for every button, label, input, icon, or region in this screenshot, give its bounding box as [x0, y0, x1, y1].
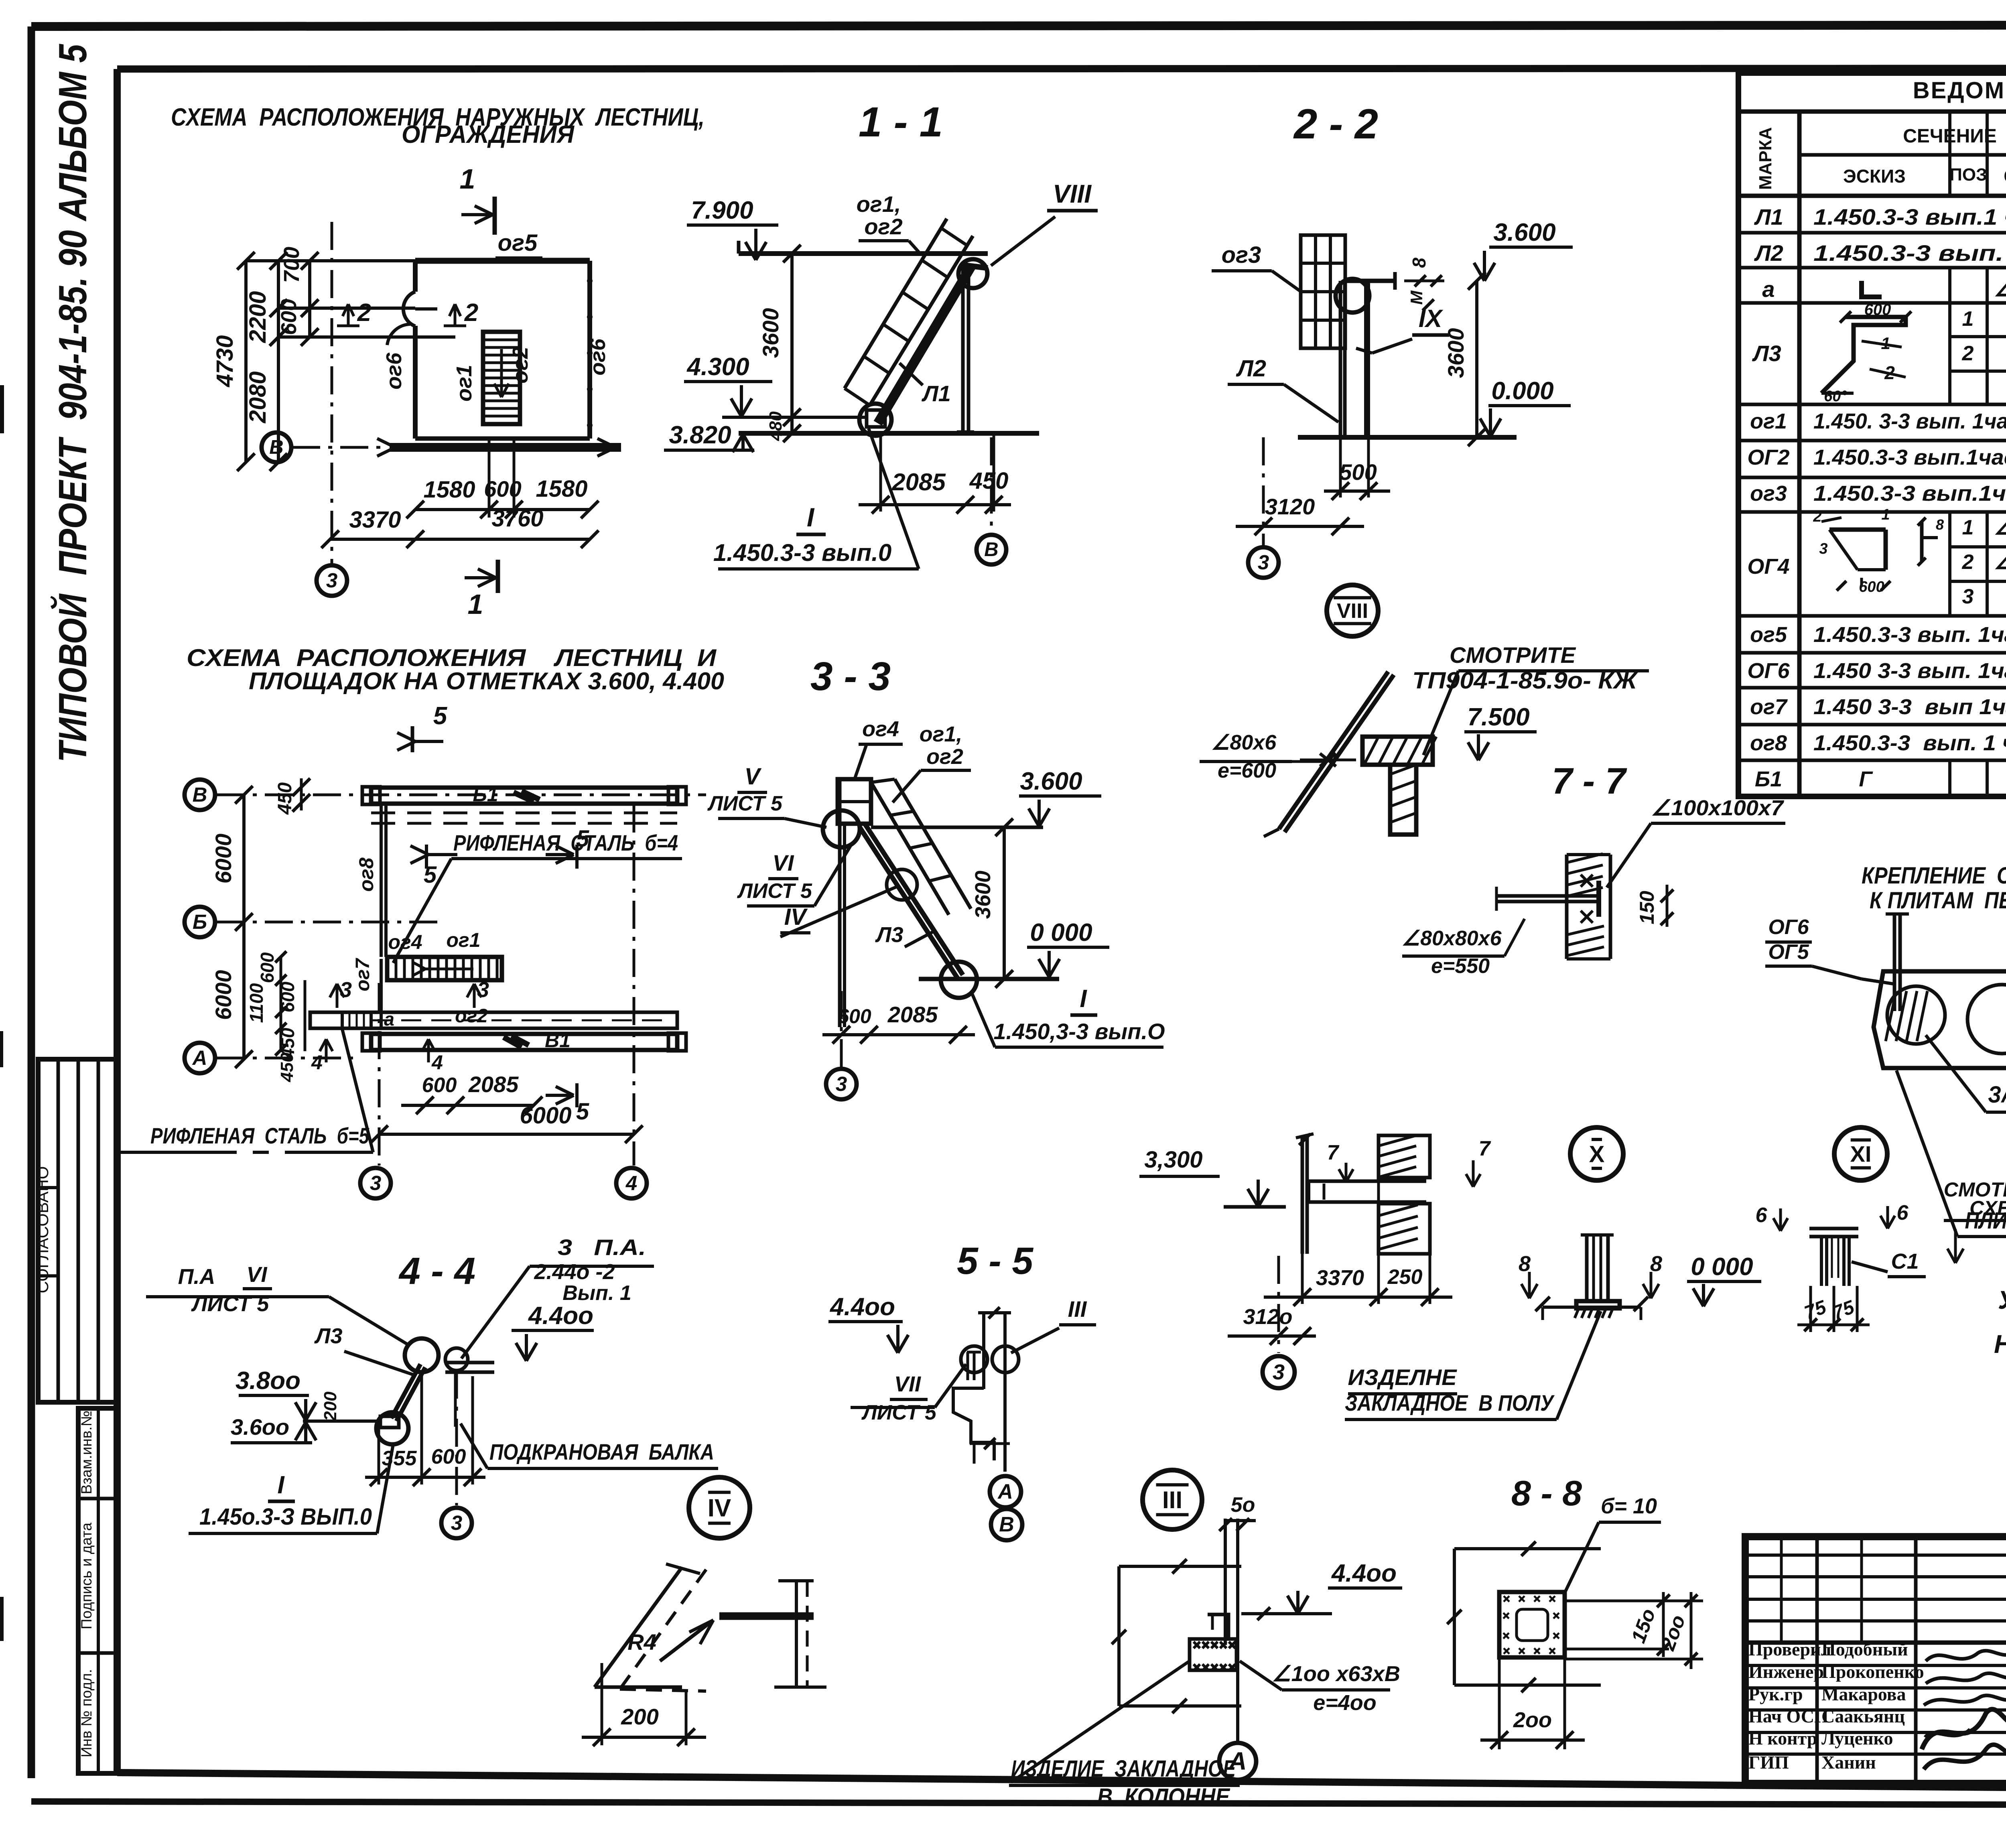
section 3-3 node IV ref: [780, 869, 917, 937]
svg-text:4: 4: [625, 1172, 637, 1194]
column base elevation 0.000: [1687, 1253, 1761, 1306]
detail 7-7 angle bar: [1496, 881, 1601, 917]
svg-text:6: 6: [1897, 1201, 1909, 1225]
section 3-3 label: [810, 654, 891, 699]
vedomost row OG8: [1750, 730, 2006, 755]
section 2-2 detail circle: [1336, 279, 1369, 313]
c1 label: [1852, 1249, 1926, 1277]
svg-text:∠80x6: ∠80x6: [1211, 731, 1277, 754]
svg-text:ог6: ог6: [586, 338, 610, 376]
section 5-5 bottom dim: [970, 1438, 1010, 1464]
vedomost row OG4 sketch: [1747, 506, 1944, 595]
detail IX inclined stringer: [1264, 672, 1394, 837]
svg-text:I: I: [1080, 985, 1087, 1013]
svg-text:ПОЗ: ПОЗ: [1949, 165, 1987, 185]
section 2-2 small dims 8: [1404, 258, 1444, 311]
svg-text:СЕЧЕНИЕ: СЕЧЕНИЕ: [1903, 126, 1997, 147]
svg-text:ог8: ог8: [355, 857, 378, 892]
svg-text:ог1: ог1: [1750, 409, 1787, 433]
section 4-4 L3 label: [314, 1324, 415, 1375]
wall detail left posts: [1296, 1134, 1314, 1254]
section 3-3 og4 label: [855, 717, 903, 779]
wall detail dims 3370 250: [1264, 1178, 1452, 1306]
c1 cut 6 markers: [1756, 1201, 1909, 1231]
section 3-3 node V ref: [707, 764, 860, 847]
section 5-5 VII ref: [851, 1364, 966, 1424]
svg-text:Подпись и дата: Подпись и дата: [78, 1523, 95, 1630]
svg-text:Б: Б: [193, 910, 207, 933]
detail 7-7 label: [1552, 761, 1627, 802]
svg-text:VIII: VIII: [1337, 599, 1368, 623]
svg-text:3.820: 3.820: [669, 421, 731, 449]
vedomost row OG5: [1750, 621, 2006, 647]
svg-text:ог2: ог2: [455, 1005, 488, 1027]
svg-text:1.450.3-3 вып. 1 часть2, ОГПМ: 1.450.3-3 вып. 1 часть2, ОГПМХЭб-12.46: [1813, 731, 2006, 755]
svg-text:Л2: Л2: [1754, 240, 1783, 266]
detail 8-8 b10 note: [1565, 1494, 1661, 1593]
svg-text:ог5: ог5: [1750, 623, 1787, 647]
svg-text:200: 200: [321, 1391, 340, 1422]
svg-text:6000: 6000: [520, 1103, 571, 1129]
section 4-4 platform lines: [445, 1363, 494, 1427]
svg-text:ОГ4: ОГ4: [1747, 554, 1789, 579]
svg-text:600: 600: [257, 952, 278, 983]
svg-text:ИЗДЕЛИЕ ЗАКЛАДНОЕ: ИЗДЕЛИЕ ЗАКЛАДНОЕ: [1011, 1756, 1236, 1782]
svg-text:2: 2: [1962, 550, 1974, 574]
section 2-2 dim 500: [1324, 437, 1390, 500]
section 1-1 bottom dims 2085 450: [859, 433, 1011, 514]
svg-text:1: 1: [460, 163, 475, 195]
svg-text:1.450.3-3 вып. 1часть2,ОГПМХЭб: 1.450.3-3 вып. 1часть2,ОГПМХЭб-12.18: [1813, 623, 2006, 647]
plan2 small dims 600 1100 600 450: [246, 951, 305, 1059]
plan2 lower platform strip: [310, 1005, 677, 1030]
svg-text:ЗАКЛАДНОЕ В ПОЛУ: ЗАКЛАДНОЕ В ПОЛУ: [1345, 1390, 1555, 1415]
detail IX anchor mark: [1300, 753, 1356, 766]
section 2-2 ground line: [1298, 435, 1517, 440]
svg-text:ог2: ог2: [508, 347, 532, 384]
svg-text:ЛИСТ 5: ЛИСТ 5: [737, 879, 812, 903]
plan2 dim 450 bottom: [277, 1052, 297, 1082]
svg-text:∠100x100x7: ∠100x100x7: [1651, 796, 1785, 820]
svg-text:Рук.гр: Рук.гр: [1748, 1684, 1803, 1704]
detail III embed plate: [1190, 1639, 1236, 1671]
svg-text:ЗАБИТЬ БЕТОНОМ: ЗАБИТЬ БЕТОНОМ: [1988, 1082, 2006, 1108]
section 1-1 detail circle at top: [958, 259, 988, 288]
section 1-1 label L1: [899, 363, 951, 406]
svg-text:1580: 1580: [536, 476, 587, 502]
svg-text:X: X: [1589, 1141, 1605, 1167]
izdelie v polu label: [1345, 1311, 1601, 1420]
svg-text:ог2: ог2: [926, 745, 963, 769]
svg-text:IX: IX: [1419, 305, 1444, 333]
svg-text:ог7: ог7: [1750, 695, 1788, 719]
detail 8-8 dims 150 200 right: [1565, 1592, 1703, 1669]
svg-text:2200: 2200: [245, 291, 271, 343]
section 2-2 dim 3120: [1236, 494, 1364, 535]
svg-text:МАРКА: МАРКА: [1756, 127, 1775, 190]
vedomost row OG3: [1750, 480, 2006, 506]
plan2 axis B: [185, 780, 706, 810]
svg-text:Подобный: Подобный: [1821, 1639, 1908, 1659]
section 1-1 label: [859, 99, 943, 146]
section 1-1 node VIII label: [991, 179, 1098, 266]
svg-text:450: 450: [277, 1052, 297, 1082]
svg-text:6000: 6000: [211, 834, 236, 884]
section 4-4 podkranovaya balka label: [461, 1424, 718, 1468]
svg-text:600: 600: [422, 1074, 457, 1097]
svg-text:1.450.3-3 вып.1 часть1, МЛХФ 6: 1.450.3-3 вып.1 часть1, МЛХФ 60-36.6: [1813, 204, 2006, 229]
section 1-1 elevation 7.900: [687, 197, 778, 260]
section 5-5 step profile: [953, 1388, 994, 1460]
svg-text:5: 5: [433, 702, 448, 730]
section 1-1 column post: [957, 266, 974, 433]
svg-text:3600: 3600: [1443, 328, 1468, 378]
section 5-5 node III ref: [1011, 1296, 1096, 1353]
section 2-2 elevation 0.000: [1480, 377, 1571, 437]
vedomost row a: [1762, 272, 2006, 307]
section 3-3 top slab block: [838, 779, 871, 824]
section 5-5 detail circles: [961, 1346, 1019, 1380]
section 5-5 elevation 4.400: [828, 1293, 908, 1353]
svg-text:4: 4: [311, 1051, 323, 1074]
r4 right member: [774, 1581, 826, 1687]
section 2-2 L2 label: [1228, 355, 1338, 422]
svg-text:1.450.3-3 вып.0: 1.450.3-3 вып.0: [713, 539, 891, 566]
node circle III: [1143, 1470, 1202, 1529]
svg-text:355: 355: [382, 1447, 417, 1470]
svg-text:Саакьянц: Саакьянц: [1821, 1706, 1905, 1726]
detail III dim 50: [1219, 1493, 1256, 1531]
svg-text:8 - 8: 8 - 8: [1511, 1473, 1582, 1513]
svg-text:Л1: Л1: [921, 381, 951, 406]
svg-text:5 - 5: 5 - 5: [957, 1240, 1033, 1282]
detail 8-8 label: [1511, 1473, 1582, 1513]
plan1 bottom dimension row 3370 3760: [321, 506, 599, 548]
svg-text:I: I: [277, 1471, 285, 1499]
svg-text:2: 2: [464, 299, 478, 327]
section 4-4 incline: [376, 1364, 425, 1444]
svg-text:Вып. 1: Вып. 1: [562, 1281, 631, 1305]
svg-text:СОГЛАСОВАНО: СОГЛАСОВАНО: [33, 1166, 52, 1294]
wall detail 7 markers: [1327, 1137, 1491, 1187]
svg-text:7.900: 7.900: [691, 197, 753, 224]
svg-text:ОГ6: ОГ6: [1768, 916, 1809, 939]
column base cut 8 markers: [1519, 1252, 1662, 1311]
vedomost table grid: [1738, 73, 2006, 796]
svg-text:3,300: 3,300: [1144, 1147, 1202, 1173]
svg-text:2: 2: [357, 299, 371, 327]
r4 dim 200: [582, 1663, 706, 1746]
svg-text:ог3: ог3: [1750, 481, 1787, 506]
svg-text:1.45о.3-З ВЫП.0: 1.45о.3-З ВЫП.0: [199, 1504, 372, 1530]
svg-text:XI: XI: [1850, 1141, 1872, 1167]
section 3-3 bottom dims 600 2085: [822, 1002, 975, 1044]
svg-text:60°: 60°: [1824, 388, 1847, 405]
section 5-5 posts: [978, 1307, 1011, 1472]
svg-text:ог6: ог6: [382, 352, 406, 390]
smotrite ref text: [1412, 642, 1649, 755]
svg-text:Б1: Б1: [1755, 767, 1782, 791]
section 3-3 ground line: [919, 977, 1059, 981]
svg-text:Взам.инв.№: Взам.инв.№: [78, 1411, 95, 1495]
svg-text:3760: 3760: [491, 506, 543, 532]
svg-text:е=4оо: е=4оо: [1313, 1691, 1377, 1715]
section 2-2 node IX ref: [1356, 305, 1449, 353]
plan2 bottom dims 600 2085: [401, 1072, 542, 1114]
section 1-1 axis B circle: [977, 437, 1006, 565]
plan2 axis circles 3 and 4: [360, 804, 647, 1198]
plan2 cut marker 5 top: [397, 702, 448, 752]
slab void hatch: [1886, 991, 1927, 1041]
svg-text:Л3: Л3: [1752, 341, 1781, 366]
svg-text:СОСТАВ: СОСТАВ: [2004, 166, 2006, 187]
vedomost row L1: [1754, 204, 2006, 229]
detail 7-7 bolt marks: [1581, 875, 1593, 923]
soglasovano stamp box: [33, 1059, 117, 1402]
svg-text:ог1,: ог1,: [857, 191, 901, 217]
column base column: [1581, 1235, 1614, 1301]
svg-text:5: 5: [576, 1099, 589, 1125]
detail III channel piece: [1208, 1614, 1228, 1639]
section 2-2 label: [1293, 101, 1378, 148]
main title line 2: [402, 121, 575, 148]
section 3-3 ref I: [971, 985, 1165, 1047]
section 2-2 posts: [1340, 281, 1368, 437]
detail 7-7 wall hatched: [1567, 855, 1610, 959]
svg-text:2 - 2: 2 - 2: [1293, 101, 1378, 148]
svg-text:III: III: [1162, 1487, 1182, 1513]
section 1-1 foot and detail circle: [859, 404, 891, 436]
svg-text:2оо: 2оо: [1513, 1708, 1552, 1732]
svg-text:1580: 1580: [423, 477, 475, 503]
svg-text:а: а: [1762, 276, 1775, 302]
svg-text:8: 8: [1409, 258, 1429, 268]
svg-text:Проверил: Проверил: [1748, 1639, 1831, 1659]
svg-text:а: а: [384, 1009, 394, 1030]
svg-text:Макарова: Макарова: [1821, 1684, 1906, 1704]
vedomost row L2: [1754, 240, 2006, 266]
svg-text:IV: IV: [708, 1495, 731, 1522]
svg-text:VI: VI: [246, 1263, 267, 1287]
svg-text:1.450,3-3 вып.О: 1.450,3-3 вып.О: [993, 1019, 1165, 1044]
svg-text:∠80x80x6: ∠80x80x6: [1994, 278, 2006, 301]
plan1 door arc leader: [387, 324, 410, 345]
plan1 bottom dimension row 1580 600 1580: [406, 439, 599, 518]
svg-text:3: 3: [340, 978, 352, 1002]
r4 detail inclined channel: [595, 1564, 706, 1691]
wall detail axis 3: [1263, 1256, 1295, 1388]
svg-text:К ПЛИТАМ ПЕРЕКРЫТИЯ: К ПЛИТАМ ПЕРЕКРЫТИЯ: [1870, 887, 2006, 914]
svg-text:3370: 3370: [1316, 1266, 1364, 1290]
detail 8-8 dim 200 bottom: [1480, 1657, 1585, 1749]
svg-text:1.450.3-3 вып.1часть 2, ОГС-2: 1.450.3-3 вып.1часть 2, ОГС-24.4: [1813, 481, 2006, 506]
detail III axis A circle: [1219, 1743, 1256, 1780]
svg-text:600: 600: [1859, 579, 1884, 595]
zabit betonom label: [1926, 1035, 2006, 1112]
svg-text:700: 700: [280, 247, 304, 283]
svg-text:А: А: [1228, 1747, 1247, 1775]
detail 7-7 angle note: [1607, 796, 1785, 887]
r4 label: [627, 1629, 656, 1655]
vertical album title text: [50, 44, 95, 762]
wall detail dim 3120: [1228, 1305, 1316, 1345]
svg-text:Нач ОСП: Нач ОСП: [1748, 1706, 1829, 1726]
column base plate: [1575, 1301, 1620, 1318]
section 3-3 og1 og2 labels: [893, 722, 971, 802]
vedomost row OG2: [1747, 444, 2006, 469]
detail III leader to izdelie: [1011, 1661, 1190, 1782]
svg-text:4 - 4: 4 - 4: [398, 1250, 475, 1292]
svg-text:2080: 2080: [245, 371, 271, 423]
section 1-1 elevation 3.820: [664, 421, 754, 452]
svg-text:ОГРАЖДЕНИЯ: ОГРАЖДЕНИЯ: [402, 121, 575, 148]
plan1 axis 3 vertical: [317, 222, 347, 596]
svg-text:ТИПОВОЙ ПРОЕКТ 904-1-85. 90: ТИПОВОЙ ПРОЕКТ 904-1-85. 90 АЛЬБОМ 5: [50, 44, 95, 762]
section 3-3 elevation 3.600: [1019, 768, 1101, 827]
svg-text:ог1: ог1: [446, 929, 480, 951]
section 4-4 3PA ref: [461, 1235, 654, 1359]
svg-text:ог1,: ог1,: [920, 722, 962, 746]
svg-text:VII: VII: [894, 1372, 921, 1396]
svg-text:1.450.3-3 вып. 1 часть 2, СХ: 1.450.3-3 вып. 1 часть 2, СХ-46: [1813, 240, 2006, 266]
svg-text:Л3: Л3: [314, 1324, 342, 1348]
plita perekrytiya label: [1896, 1070, 2006, 1237]
section 1-1 ref I 1.450.3-3: [713, 428, 919, 569]
svg-text:2085: 2085: [468, 1072, 519, 1097]
vedomost row B1: [1755, 763, 2006, 791]
detail III vertical bars: [1225, 1519, 1238, 1741]
svg-text:VI: VI: [773, 850, 794, 875]
plan1 railing tick dots: [437, 258, 593, 428]
svg-text:В: В: [193, 783, 207, 806]
svg-text:500: 500: [1339, 459, 1377, 485]
plan1 platform double line: [377, 439, 621, 456]
svg-text:1: 1: [1881, 506, 1890, 523]
plan2 cut marker 4 pair: [311, 1039, 443, 1074]
svg-text:7: 7: [1479, 1137, 1491, 1160]
section 3-3 dim 3600: [971, 818, 1013, 988]
svg-text:600: 600: [1864, 301, 1891, 319]
plan2 platform B1 top: [362, 783, 686, 806]
svg-text:Инв № подл.: Инв № подл.: [78, 1669, 95, 1757]
svg-text:6000: 6000: [211, 970, 236, 1020]
section 4-4 ref I: [189, 1444, 393, 1533]
slab post: [1886, 914, 1909, 1011]
svg-text:СМОТРИТЕ: СМОТРИТЕ: [1450, 642, 1576, 668]
svg-text:5о: 5о: [1231, 1493, 1255, 1517]
main title line 1: [171, 104, 705, 131]
svg-text:УЗЛЫ X , XI ЗАМАРКИРОВАНЫ: УЗЛЫ X , XI ЗАМАРКИРОВАНЫ: [1998, 1285, 2006, 1314]
vedomost row OG6: [1747, 658, 2006, 683]
left margin scan marks: [0, 385, 4, 1641]
svg-text:0 000: 0 000: [1691, 1253, 1753, 1281]
svg-text:Прокопенко: Прокопенко: [1821, 1661, 1924, 1682]
vedomost row L3 pos2: [1962, 342, 2006, 365]
svg-text:∠63x63x5: ∠63x63x5: [1994, 516, 2006, 539]
svg-text:ВЕДОМОСТЬ ЭЛЕМЕНТОВ: ВЕДОМОСТЬ ЭЛЕМЕНТОВ: [1913, 77, 2006, 104]
vedomost row OG4 pos3: [1962, 578, 2006, 608]
svg-text:3: 3: [1962, 585, 1974, 608]
svg-text:480: 480: [766, 411, 786, 441]
node circle X: [1570, 1127, 1623, 1180]
svg-text:ЛИСТ 5: ЛИСТ 5: [861, 1401, 937, 1424]
svg-text:В: В: [984, 539, 998, 560]
svg-text:3.600: 3.600: [1493, 219, 1555, 246]
plan2 dim 450 top: [274, 778, 310, 815]
svg-text:4: 4: [431, 1051, 443, 1074]
svg-text:450: 450: [969, 468, 1009, 494]
section 5-5 axis circles A B: [990, 1476, 1022, 1540]
title2 line1: [187, 644, 717, 671]
svg-text:∠1оо x63xВ: ∠1оо x63xВ: [1272, 1662, 1400, 1686]
svg-text:2085: 2085: [887, 1002, 938, 1027]
detail 7-7 wall hatch strokes: [1567, 854, 1604, 956]
svg-text:А: А: [997, 1480, 1013, 1503]
section 3-3 node VI ref: [737, 843, 853, 906]
svg-text:ГИП: ГИП: [1748, 1752, 1789, 1773]
section 4-4 label: [398, 1250, 475, 1292]
section 2-2 dim 3600: [1443, 272, 1486, 446]
svg-text:2: 2: [1962, 342, 1974, 365]
column base ground line: [1543, 1307, 1641, 1320]
svg-text:3.600: 3.600: [1020, 768, 1082, 795]
svg-text:П.А: П.А: [178, 1265, 215, 1289]
svg-text:8: 8: [1936, 516, 1944, 533]
svg-text:250: 250: [1387, 1265, 1423, 1289]
section 2-2 axis 3: [1248, 437, 1279, 578]
c1 channel: [1821, 1237, 1849, 1286]
title block frame: [1745, 1537, 2006, 1783]
plan2 platform V1 bottom: [362, 1029, 686, 1052]
node circle IV: [689, 1477, 750, 1538]
section 1-1 top platform line: [739, 241, 988, 254]
svg-text:5: 5: [424, 862, 437, 888]
plan1 section cut marker 1 top: [460, 163, 495, 235]
section 1-1 elevation 4.300: [684, 353, 772, 416]
detail III outer box: [1112, 1559, 1241, 1713]
svg-text:3: 3: [836, 1072, 847, 1095]
svg-text:450: 450: [274, 782, 296, 815]
plan2 vertical member og8: [355, 804, 386, 957]
section 5-5 label: [957, 1240, 1033, 1282]
c1 top plate: [1809, 1229, 1858, 1237]
section 4-4 PA VI ref: [146, 1263, 408, 1345]
svg-text:3600: 3600: [971, 871, 995, 919]
section 3-3 axis 3: [826, 991, 857, 1099]
svg-text:200: 200: [621, 1704, 658, 1729]
svg-text:С1: С1: [1891, 1249, 1919, 1273]
detail III level line: [1241, 1607, 1332, 1620]
inventory margin box: [78, 1408, 117, 1773]
svg-text:∠63x63x5: ∠63x63x5: [1994, 551, 2006, 573]
title2 line2: [249, 668, 724, 695]
svg-text:3: 3: [326, 569, 337, 592]
smotrite shemu label: [1944, 1178, 2006, 1263]
section 1-1 ground line: [739, 431, 1039, 436]
svg-text:600: 600: [431, 1445, 466, 1468]
slab outline with voids: [1874, 971, 2006, 1068]
title block signatures: [1922, 1651, 2006, 1769]
plan2 dashed lines under platform: [371, 813, 677, 823]
section 3-3 foot circle: [941, 962, 977, 998]
detail 7-7 dim 150: [1636, 885, 1673, 927]
section 2-2 og3 label: [1212, 242, 1303, 293]
svg-text:III: III: [1068, 1296, 1087, 1322]
plan2 cut marker 5 right: [546, 826, 589, 1125]
svg-text:ог4: ог4: [388, 931, 422, 953]
vedomost row OG7: [1750, 694, 2006, 719]
node circle VIII big: [1327, 585, 1378, 636]
